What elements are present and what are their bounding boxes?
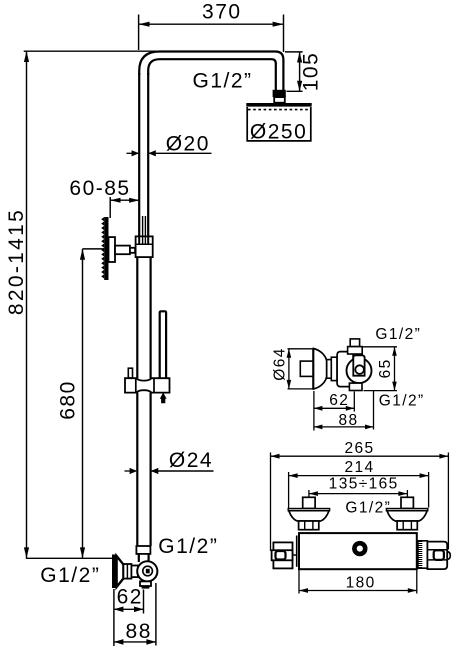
bottom elbow: pipe nut — [136, 546, 150, 554]
front left inlet stub — [303, 497, 315, 508]
right knurl strip — [418, 541, 428, 568]
dim 820-1415 arrow up — [24, 51, 29, 62]
front left inlet cone — [289, 511, 329, 521]
dim 265 arrows — [271, 454, 280, 459]
svg-text:G1/2”: G1/2” — [40, 564, 100, 587]
front right inlet stub — [401, 497, 413, 508]
dim 135÷165 ext left — [308, 490, 310, 497]
side view: bottom outlet — [349, 383, 362, 390]
dim Ø64 arrow up — [287, 349, 292, 358]
wall hatching bar — [101, 217, 108, 280]
side view: body circle — [347, 358, 372, 383]
svg-text:265: 265 — [344, 440, 374, 457]
dim 62 line — [114, 608, 144, 610]
dim 680 arrow down — [80, 547, 85, 558]
svg-text:62: 62 — [117, 585, 143, 608]
dim 180 ext left — [298, 569, 300, 593]
dim 105 line — [299, 52, 301, 91]
right knob body — [427, 542, 447, 570]
dim 65 line — [394, 347, 396, 391]
svg-text:370: 370 — [202, 0, 242, 23]
front right inlet nut — [397, 521, 417, 530]
front right inlet cone — [387, 511, 427, 521]
dim 105 arrow down — [297, 81, 302, 92]
dim Ø64 arrow down — [287, 380, 292, 389]
svg-text:Ø20: Ø20 — [166, 132, 210, 155]
front right inlet plate — [386, 509, 427, 511]
dim 60-85 arrow right — [129, 198, 139, 203]
dim 135÷165 arrows — [309, 491, 318, 496]
dim 820-1415 line — [26, 51, 28, 558]
dim 180 arrows — [299, 588, 308, 593]
dim side-88 line — [314, 426, 374, 428]
wall bracket arm — [115, 246, 130, 255]
dim 65 arrow up — [392, 347, 397, 356]
riser pipe lower Ø24 upper segment — [136, 257, 138, 378]
front left inlet nut — [299, 521, 319, 530]
dim 62 arrow right — [134, 607, 144, 613]
dim 105 arrow up — [297, 52, 302, 63]
right knob inner square — [434, 550, 444, 560]
hand shower handle — [160, 311, 166, 378]
dim 60-85 line — [110, 199, 139, 201]
side view: nut rings — [327, 360, 332, 379]
dim 180 line — [299, 590, 417, 592]
left knob inner square — [276, 551, 286, 560]
shower head body box — [247, 107, 311, 141]
left knob band — [272, 550, 293, 560]
side view: cartridge — [353, 355, 364, 375]
right knob band bump — [447, 552, 450, 560]
dim 180 ext right — [416, 569, 418, 593]
bottom elbow: pipe stub to valve — [138, 554, 140, 562]
dim 65 ext bottom — [364, 390, 398, 392]
shower head spray face (dashed) — [248, 109, 311, 111]
dim side-88 arrows — [314, 425, 323, 430]
dim 265 ext left — [270, 453, 272, 552]
dim 370 arrow right — [273, 22, 284, 27]
dim 88 ext right — [155, 583, 157, 646]
bottom elbow: valve body circle — [137, 561, 157, 581]
wall bracket coupler — [130, 248, 135, 253]
shower arm inner wall — [148, 59, 276, 90]
dim side-62 line — [314, 407, 354, 409]
svg-text:G1/2”: G1/2” — [193, 70, 253, 93]
dim 214 arrows — [289, 473, 298, 478]
dim side-62 ext right — [353, 392, 355, 412]
right knob band lines — [427, 549, 447, 551]
svg-text:G1/2”: G1/2” — [375, 326, 421, 343]
dim 265 line — [271, 455, 449, 457]
side view: top nut — [348, 347, 363, 354]
dim 370 line — [139, 23, 284, 25]
riser inner tube lines near bracket — [142, 216, 144, 236]
svg-text:Ø24: Ø24 — [169, 449, 213, 472]
riser pipe upper Ø20 left wall — [138, 73, 140, 236]
left knob body — [273, 542, 292, 568]
head connector nut — [274, 97, 285, 103]
side view: wall flange plate — [312, 349, 315, 390]
svg-text:Ø250: Ø250 — [250, 120, 307, 143]
mixer center button — [352, 541, 367, 556]
svg-text:88: 88 — [126, 620, 152, 643]
bottom elbow: outlet — [140, 581, 151, 586]
svg-text:105: 105 — [300, 52, 323, 92]
dim 62 ext right — [143, 590, 145, 614]
dim 135÷165 line — [309, 493, 408, 495]
dim 88 arrow right — [146, 639, 156, 645]
riser pipe lower Ø24 bottom segment — [136, 393, 138, 546]
svg-text:180: 180 — [346, 574, 376, 591]
wall bracket flange — [109, 237, 116, 262]
side view: flange bell — [314, 349, 327, 390]
svg-text:88: 88 — [338, 412, 358, 429]
dim side-62 ext left — [313, 391, 315, 431]
dim 88 arrow left — [114, 639, 124, 645]
dim Ø24 arrow right + leader — [151, 468, 159, 474]
wire: top reference line y51 for 820-1415 — [24, 50, 160, 52]
dim Ø64 line — [288, 349, 290, 389]
svg-text:G1/2”: G1/2” — [158, 535, 218, 558]
head connector flange (black) — [273, 90, 286, 97]
front left inlet plate — [288, 509, 329, 511]
mixer body bar — [299, 533, 417, 569]
dim 135÷165 ext right — [406, 490, 408, 497]
dim 65 arrow down — [392, 382, 397, 391]
dim 214 ext left — [288, 472, 290, 508]
dim 88 line — [114, 641, 156, 643]
side view: mixer body block — [337, 352, 353, 387]
svg-text:G1/2”: G1/2” — [345, 500, 391, 517]
side view: top stub — [350, 339, 359, 347]
dim Ø64 ext bottom — [288, 388, 314, 390]
dim side-88 ext right — [373, 390, 375, 430]
hand shower hose connector (black) — [160, 392, 167, 403]
svg-text:214: 214 — [344, 459, 374, 476]
dim 265 ext right — [447, 453, 449, 550]
dim 680 line — [82, 249, 84, 558]
riser pipe upper Ø20 right wall — [147, 73, 149, 236]
svg-text:62: 62 — [329, 392, 349, 409]
dim Ø20 arrow right + leader — [148, 150, 156, 156]
dim 820-1415 arrow down — [24, 547, 29, 558]
dim Ø64 ext top — [288, 348, 314, 350]
bottom elbow: hex nut rings — [123, 564, 131, 579]
svg-text:65: 65 — [377, 358, 394, 378]
svg-text:Ø64: Ø64 — [272, 347, 289, 381]
bottom elbow: valve inner square (black) — [146, 569, 150, 574]
svg-text:135÷165: 135÷165 — [329, 475, 399, 492]
dim Ø24 arrow left — [130, 468, 138, 474]
dim 370 extension right — [283, 15, 285, 53]
dim 214 ext right — [428, 472, 430, 508]
dim 60-85 arrow left — [110, 198, 120, 203]
dim 60-85 ext left — [109, 197, 111, 218]
dim 62 ext left — [113, 589, 115, 646]
shower head plate — [246, 103, 311, 107]
side view: concealed union square — [300, 361, 313, 376]
side view: inner circle — [355, 365, 364, 374]
dim side-62 arrows — [314, 406, 323, 411]
svg-text:680: 680 — [57, 380, 80, 420]
shower arm outer wall — [139, 52, 283, 91]
svg-text:G1/2”: G1/2” — [379, 392, 425, 409]
left neck line — [296, 536, 298, 567]
dim 680 top ref line — [83, 248, 105, 250]
bottom ref line y558 — [26, 557, 113, 559]
dim 105 ext top — [285, 51, 303, 53]
slider lever knob — [128, 368, 132, 378]
dim 62 arrow left — [114, 607, 124, 613]
dim 105 ext bottom — [287, 90, 303, 92]
bottom elbow: wall flange (black) — [112, 555, 123, 589]
dim 370 arrow left — [139, 22, 150, 27]
slider block — [125, 378, 170, 392]
bracket block on riser — [136, 236, 153, 257]
dim 214 line — [289, 475, 429, 477]
svg-text:60-85: 60-85 — [69, 177, 130, 200]
left neck tick — [294, 554, 296, 556]
svg-text:820-1415: 820-1415 — [5, 208, 28, 315]
dim 370 extension left — [138, 15, 140, 51]
dim 680 arrow up — [80, 249, 85, 260]
bottom elbow: valve inner circle — [143, 566, 153, 576]
dim 65 ext top — [363, 346, 398, 348]
dim Ø20 arrow left — [132, 150, 140, 156]
